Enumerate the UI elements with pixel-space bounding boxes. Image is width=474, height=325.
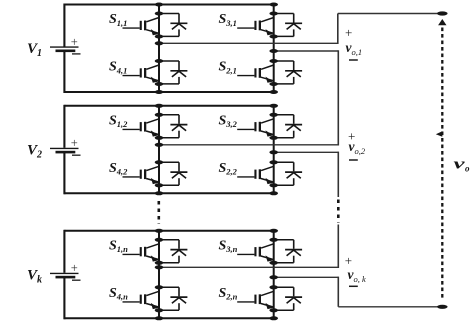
svg-text:+: + xyxy=(71,136,78,150)
battery V2 with left rail wire xyxy=(50,105,81,195)
cell 2 bottom rail wire xyxy=(64,192,273,194)
battery V1 with left rail wire xyxy=(50,4,81,94)
svg-text:+: + xyxy=(71,35,78,49)
cell 2 - output wire (from right leg midpoint) xyxy=(274,151,339,153)
transistor S3,2 (IGBT) xyxy=(237,119,274,137)
cell 2 left leg wire xyxy=(158,106,160,194)
vo arrowhead (top, pointing up) xyxy=(438,19,446,25)
cell 2 junction dots xyxy=(155,104,278,196)
H-bridge cell 1: top rail wire xyxy=(64,4,273,6)
transistor S3,n (IGBT) xyxy=(237,244,274,262)
diode of S3,2 xyxy=(274,115,302,138)
svg-text:+: + xyxy=(345,253,352,268)
label - of vo,1 xyxy=(349,59,358,61)
diode of S3,n xyxy=(274,240,302,263)
cell 1 + output wire (from left leg midpoint) xyxy=(159,42,338,44)
cell 2 + output wire (from left leg midpoint) xyxy=(159,144,338,146)
battery Vk with left rail wire xyxy=(50,230,81,319)
diode of S2,2 xyxy=(274,162,302,185)
transistor S4,2 (IGBT) xyxy=(123,166,160,184)
bottom output bus wire xyxy=(338,306,442,308)
label - of vo,2 xyxy=(349,159,358,161)
cell 3 junction dots xyxy=(155,229,278,320)
svg-text:+: + xyxy=(345,25,352,40)
cell 3 right leg wire xyxy=(273,231,275,318)
wire: cell3 - down to bottom bus xyxy=(337,277,339,307)
cell 3 left leg wire xyxy=(158,231,160,318)
vo arrowhead (middle, pointing left) xyxy=(436,131,443,137)
transistor S3,1 (IGBT) xyxy=(237,18,274,36)
node: top output terminal xyxy=(437,11,448,15)
cell 3 - output wire (from right leg midpoint) xyxy=(274,276,339,278)
transistor S1,2 (IGBT) xyxy=(123,119,160,137)
transistor S2,1 (IGBT) xyxy=(237,65,274,83)
diode of S4,n xyxy=(159,287,187,310)
diode of S2,n xyxy=(274,287,302,310)
transistor S1,n (IGBT) xyxy=(123,244,160,262)
diode of S1,2 xyxy=(159,115,187,138)
cell 1 - output wire (from right leg midpoint) xyxy=(274,50,339,52)
diode of S4,2 xyxy=(159,162,187,185)
cell 1 bottom rail wire xyxy=(64,91,273,93)
diode of S1,n xyxy=(159,240,187,263)
transistor S2,2 (IGBT) xyxy=(237,166,274,184)
diode of S1,1 xyxy=(159,14,187,37)
transistor S1,1 (IGBT) xyxy=(123,18,160,36)
wire: cell1 - down to cell2 + xyxy=(337,50,339,145)
top output bus wire xyxy=(338,13,443,15)
diode of S4,1 xyxy=(159,61,187,84)
label - of vo, k xyxy=(349,285,358,287)
cell 3 + output wire (from left leg midpoint) xyxy=(159,266,338,268)
vo measurement dashed line xyxy=(441,28,443,301)
transistor S4,n (IGBT) xyxy=(123,291,160,309)
node: bottom output terminal xyxy=(437,305,448,309)
cell 2 right leg wire xyxy=(273,106,275,194)
cell 1 left leg wire xyxy=(158,5,160,93)
cell 3 bottom rail wire xyxy=(64,317,273,319)
ellipsis dots between cell 2 and cell 3 (left leg) xyxy=(158,201,161,224)
transistor S2,n (IGBT) xyxy=(237,291,274,309)
diode of S3,1 xyxy=(274,14,302,37)
svg-text:+: + xyxy=(71,261,78,275)
wire: cell1 + up to top bus xyxy=(337,14,339,45)
cell 1 right leg wire xyxy=(273,5,275,93)
wire: cell2 - down to cell3 + (with dotted break) xyxy=(337,152,339,268)
diode of S2,1 xyxy=(274,61,302,84)
H-bridge cell 3: top rail wire xyxy=(64,230,273,232)
H-bridge cell 2: top rail wire xyxy=(64,105,273,107)
transistor S4,1 (IGBT) xyxy=(123,65,160,83)
cell 1 junction dots xyxy=(155,3,278,95)
